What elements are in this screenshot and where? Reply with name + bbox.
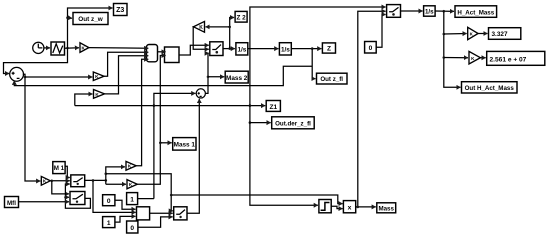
wire constant 0b to SWC input 3: [138, 217, 173, 227]
wire gain GT1 up to mux input 4: [136, 59, 148, 166]
svg-text:0: 0: [130, 225, 134, 232]
integrator 1/s B: [279, 43, 291, 55]
gain GK1: [468, 27, 478, 39]
relay block: [319, 200, 331, 213]
constant 1 b: [103, 217, 115, 228]
wire SWA out to gains GT1 GT2 and blank subsystem: [85, 167, 343, 213]
switch SW0: [387, 5, 401, 18]
constant 0 a: [103, 195, 115, 206]
svg-text:2.561 e + 07: 2.561 e + 07: [490, 56, 527, 63]
wire net D horizontal run to Z1: [75, 93, 265, 198]
gain GT1: [126, 161, 136, 170]
svg-text:1: 1: [107, 220, 111, 227]
wire gain G4 to mux input 1: [89, 47, 148, 50]
flipped gain G5: [194, 21, 205, 32]
wire F1 out up to switch SW1 input 1: [179, 45, 209, 55]
wire gain G2 up to mux input 3: [105, 56, 149, 94]
outport Out z_fl: [317, 73, 348, 84]
constant 1 a: [127, 193, 138, 205]
svg-text:3.327: 3.327: [492, 31, 508, 38]
wire flipped gain G5 down to SW1 input 2: [193, 27, 209, 50]
goto tag Z2: [235, 11, 247, 22]
wire SWB out loop to SWB input 2 and SWA input 3: [64, 184, 90, 208]
goto tag Z: [322, 43, 335, 53]
wire SW0 out to integrator C: [401, 10, 423, 12]
svg-text:Z 2: Z 2: [236, 14, 246, 21]
outport Out.der_z_fl: [272, 117, 315, 129]
svg-text:1: 1: [130, 197, 134, 204]
gain G1: [93, 72, 104, 81]
svg-text:Out z_fl: Out z_fl: [320, 76, 343, 83]
subsystem blank: [137, 207, 150, 220]
svg-text:K: K: [199, 25, 203, 31]
gain G2: [94, 90, 105, 99]
wire constant 0a to blank input 1: [115, 200, 136, 209]
sum S2: [196, 89, 205, 98]
svg-text:1/s: 1/s: [281, 47, 290, 54]
wire sum S2 out up to SW1 input 3 and Mass 2: [205, 53, 224, 93]
svg-text:0: 0: [369, 45, 373, 52]
wire net D vertical x250: [249, 7, 386, 205]
gain G4: [80, 43, 89, 53]
svg-text:Mass 2: Mass 2: [226, 75, 248, 82]
wire node down to sum S1 plus input: [4, 48, 68, 74]
wire integrator B to Z with branches: [291, 47, 321, 78]
constant 0 b: [127, 221, 138, 233]
wire blank out to SWC input 2: [150, 212, 173, 214]
wire gain GK1 to display 3.327: [478, 33, 487, 35]
constant M 1: [53, 162, 65, 174]
switch SWA: [71, 175, 85, 187]
signal source block: [51, 42, 65, 55]
svg-text:0: 0: [107, 198, 111, 205]
outport Out z_w: [73, 13, 108, 25]
wire product out up to SW0 input 2: [358, 11, 386, 207]
constant 0 top: [365, 42, 377, 54]
wire gain GT2 up to F1 input 2 and Mass 1: [137, 56, 171, 185]
wire constant M 1 to switch SWA input 1: [65, 166, 70, 177]
switch SWC: [174, 207, 187, 220]
svg-text:Mass 1: Mass 1: [174, 142, 196, 149]
wire feedback from integrator B down-left to sum S1 minus: [14, 66, 312, 85]
wire SWC out up to sum S2 bottom input: [187, 99, 199, 213]
product block: [343, 201, 355, 213]
svg-text:Out z_w: Out z_w: [78, 16, 103, 23]
wire constant Mfl to SWB input 3: [19, 201, 70, 203]
outport Out H_Act_Mass: [462, 82, 518, 93]
svg-text:Out.der_z_fl: Out.der_z_fl: [275, 121, 311, 128]
svg-text:x: x: [348, 205, 352, 212]
svg-text:H_Act_Mass: H_Act_Mass: [457, 9, 494, 16]
switch SWB: [70, 192, 85, 205]
wire gain G3 out to SWA input 2 with branch to SWB input 1: [50, 180, 70, 194]
clock source: [33, 42, 44, 53]
wire clock to signal block: [44, 47, 50, 49]
svg-text:1/s: 1/s: [425, 9, 434, 16]
svg-text:Z1: Z1: [269, 104, 277, 111]
integrator 1/s C: [424, 6, 436, 16]
display 2.561e+07: [487, 51, 545, 65]
wire constant 1b to blank input 3: [115, 216, 136, 222]
wire SW1 out to integrator A with branch to Z2 and G5: [206, 18, 235, 50]
mux U1: [147, 45, 158, 62]
wire product out to display Mass: [356, 206, 376, 209]
wire gain G1 up to mux input 2: [104, 52, 148, 76]
wire node up to Z3: [66, 8, 112, 48]
wire integrator A to integrator B: [248, 48, 279, 50]
wire mux out to function block F1: [158, 51, 166, 53]
wire net D left segment to gain G2 input: [75, 94, 93, 106]
display Mass 2: [225, 71, 248, 83]
switch SW1: [210, 42, 223, 56]
gain G3: [41, 176, 50, 185]
goto tag Z3: [114, 4, 128, 16]
function block F1: [165, 47, 180, 63]
svg-text:1/s: 1/s: [237, 47, 246, 54]
wire constant 0 top to SW0 input 3: [376, 15, 385, 48]
constant Mfl: [5, 197, 19, 208]
display Mass: [377, 203, 396, 213]
sum S1: [10, 67, 24, 81]
gain GK2: [469, 51, 480, 64]
svg-text:Mass: Mass: [378, 205, 394, 212]
display 3.327: [489, 28, 521, 40]
wire signal block to gain G4 with branch node: [65, 47, 80, 50]
wire constant 1a to SWC input 1 and long run to product: [138, 198, 154, 200]
goto tag H_Act_Mass: [455, 6, 497, 17]
svg-text:Z3: Z3: [116, 7, 124, 14]
wire relay out to product input 2: [331, 206, 342, 208]
wire sum S1 out to gain G1 and down branch: [23, 74, 93, 181]
goto tag Z1: [266, 101, 280, 112]
svg-text:M 1: M 1: [54, 165, 65, 172]
display Mass 1: [173, 138, 196, 151]
gain GT2: [127, 180, 137, 189]
svg-text:Mfl: Mfl: [7, 200, 16, 207]
wire integrator C to H_Act_Mass with branch column: [435, 10, 468, 87]
svg-text:Z: Z: [327, 46, 331, 53]
svg-text:Out H_Act_Mass: Out H_Act_Mass: [465, 85, 515, 92]
wire gain GK2 to display 2.561e+07: [480, 57, 485, 59]
integrator 1/s A: [236, 43, 248, 55]
